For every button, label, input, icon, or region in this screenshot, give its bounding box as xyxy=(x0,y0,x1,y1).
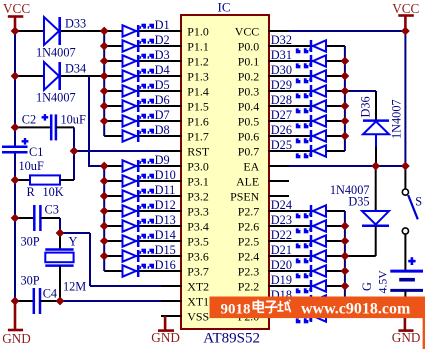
svg-text:P3.5: P3.5 xyxy=(187,235,209,249)
svg-text:RST: RST xyxy=(187,145,210,159)
svg-text:P2.4: P2.4 xyxy=(238,250,260,264)
svg-text:PSEN: PSEN xyxy=(230,190,259,204)
svg-text:R: R xyxy=(27,185,36,199)
svg-text:D31: D31 xyxy=(271,48,292,62)
svg-text:D20: D20 xyxy=(271,258,292,272)
svg-text:12M: 12M xyxy=(63,280,86,294)
svg-text:C3: C3 xyxy=(45,203,59,217)
svg-text:P3.3: P3.3 xyxy=(187,205,209,219)
svg-text:10uF: 10uF xyxy=(61,112,86,126)
svg-text:AT89S52: AT89S52 xyxy=(203,330,260,346)
svg-text:www.c9018.com: www.c9018.com xyxy=(301,301,411,318)
svg-text:D8: D8 xyxy=(155,123,170,137)
svg-text:P1.0: P1.0 xyxy=(187,25,209,39)
svg-text:C4: C4 xyxy=(43,287,57,301)
svg-text:P0.5: P0.5 xyxy=(238,115,260,129)
svg-text:P0.2: P0.2 xyxy=(238,70,260,84)
svg-text:D14: D14 xyxy=(155,228,176,242)
svg-text:P2.5: P2.5 xyxy=(238,235,260,249)
svg-text:P0.4: P0.4 xyxy=(238,100,260,114)
svg-text:D29: D29 xyxy=(271,78,292,92)
svg-text:D13: D13 xyxy=(155,213,176,227)
svg-text:P1.2: P1.2 xyxy=(187,55,209,69)
svg-text:P1.6: P1.6 xyxy=(187,115,209,129)
svg-text:D10: D10 xyxy=(155,168,176,182)
svg-text:9018: 9018 xyxy=(221,301,251,317)
svg-text:D4: D4 xyxy=(155,63,170,77)
svg-text:P3.0: P3.0 xyxy=(187,160,209,174)
svg-text:G: G xyxy=(360,282,374,291)
svg-text:D9: D9 xyxy=(155,153,170,167)
svg-text:10K: 10K xyxy=(43,185,64,199)
svg-text:P2.2: P2.2 xyxy=(238,280,260,294)
svg-text:D32: D32 xyxy=(271,33,292,47)
svg-text:P1.4: P1.4 xyxy=(187,85,209,99)
svg-text:D11: D11 xyxy=(155,183,176,197)
svg-text:P2.7: P2.7 xyxy=(238,205,260,219)
svg-text:P1.1: P1.1 xyxy=(187,40,209,54)
svg-text:P0.0: P0.0 xyxy=(238,40,260,54)
svg-text:IC: IC xyxy=(218,0,231,15)
svg-text:C2: C2 xyxy=(22,112,36,126)
svg-text:XT1: XT1 xyxy=(187,295,209,309)
svg-text:P2.6: P2.6 xyxy=(238,220,260,234)
svg-text:P1.5: P1.5 xyxy=(187,100,209,114)
svg-text:30P: 30P xyxy=(21,235,40,249)
svg-text:D26: D26 xyxy=(271,123,292,137)
svg-text:D3: D3 xyxy=(155,48,170,62)
svg-text:D28: D28 xyxy=(271,93,292,107)
svg-text:1N4007: 1N4007 xyxy=(36,46,76,60)
svg-text:30P: 30P xyxy=(21,274,40,288)
svg-text:D7: D7 xyxy=(155,108,170,122)
svg-text:P1.3: P1.3 xyxy=(187,70,209,84)
svg-text:D22: D22 xyxy=(271,228,292,242)
svg-text:D33: D33 xyxy=(65,17,86,31)
svg-text:D12: D12 xyxy=(155,198,176,212)
svg-text:D30: D30 xyxy=(271,63,292,77)
svg-text:GND: GND xyxy=(2,331,31,346)
svg-text:D16: D16 xyxy=(155,258,176,272)
svg-text:D36: D36 xyxy=(359,96,373,117)
svg-text:D6: D6 xyxy=(155,93,170,107)
svg-text:D1: D1 xyxy=(155,18,170,32)
svg-text:D27: D27 xyxy=(271,108,292,122)
svg-text:D34: D34 xyxy=(65,62,86,76)
svg-text:D23: D23 xyxy=(271,213,292,227)
svg-text:D15: D15 xyxy=(155,243,176,257)
svg-text:C1: C1 xyxy=(29,145,43,159)
svg-text:D21: D21 xyxy=(271,243,292,257)
svg-text:10uF: 10uF xyxy=(19,159,44,173)
svg-text:D19: D19 xyxy=(271,273,292,287)
svg-text:D25: D25 xyxy=(271,138,292,152)
svg-text:P3.1: P3.1 xyxy=(187,175,209,189)
svg-text:P3.4: P3.4 xyxy=(187,220,209,234)
svg-text:P0.6: P0.6 xyxy=(238,130,260,144)
svg-text:1N4007: 1N4007 xyxy=(390,99,404,139)
svg-text:P3.6: P3.6 xyxy=(187,250,209,264)
svg-text:VCC: VCC xyxy=(3,1,30,16)
svg-text:VCC: VCC xyxy=(235,25,260,39)
svg-text:4.5V: 4.5V xyxy=(376,270,390,294)
svg-text:1N4007: 1N4007 xyxy=(36,91,76,105)
svg-text:D24: D24 xyxy=(271,198,292,212)
svg-text:Y: Y xyxy=(69,235,78,249)
svg-text:P2.3: P2.3 xyxy=(238,265,260,279)
svg-text:XT2: XT2 xyxy=(187,280,209,294)
svg-text:D2: D2 xyxy=(155,33,170,47)
svg-text:EA: EA xyxy=(243,160,259,174)
svg-text:GND: GND xyxy=(151,330,180,345)
svg-text:VSS: VSS xyxy=(187,310,209,324)
svg-text:P3.2: P3.2 xyxy=(187,190,209,204)
svg-text:S: S xyxy=(415,195,422,209)
svg-text:D5: D5 xyxy=(155,78,170,92)
svg-text:ALE: ALE xyxy=(236,175,259,189)
svg-text:GND: GND xyxy=(392,330,421,345)
svg-text:P3.7: P3.7 xyxy=(187,265,209,279)
svg-text:P0.1: P0.1 xyxy=(238,55,260,69)
svg-text:P0.3: P0.3 xyxy=(238,85,260,99)
svg-text:VCC: VCC xyxy=(392,1,419,16)
svg-text:P1.7: P1.7 xyxy=(187,130,209,144)
svg-text:P0.7: P0.7 xyxy=(238,145,260,159)
svg-text:D35: D35 xyxy=(348,195,369,209)
